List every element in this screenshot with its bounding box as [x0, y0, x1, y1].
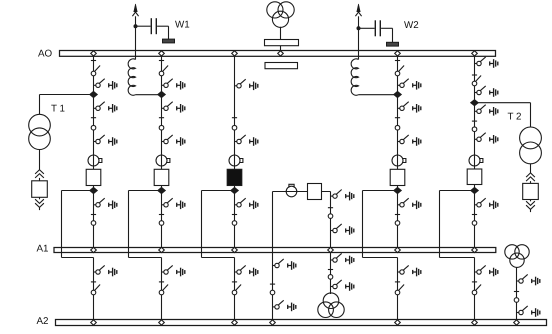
svg-text:W2: W2 [404, 20, 419, 31]
svg-text:A1: A1 [37, 244, 49, 255]
svg-text:T 2: T 2 [508, 112, 522, 123]
svg-text:AO: AO [38, 48, 53, 59]
svg-text:W1: W1 [175, 20, 190, 31]
svg-text:T 1: T 1 [51, 104, 65, 115]
svg-text:A2: A2 [37, 316, 49, 327]
